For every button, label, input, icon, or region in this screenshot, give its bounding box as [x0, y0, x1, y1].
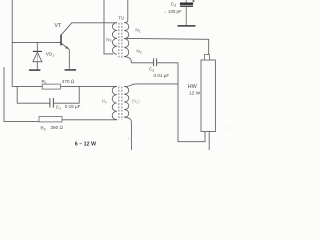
svg-text:0.01 µF: 0.01 µF	[154, 73, 170, 78]
wire: diode bottom lead	[36, 62, 38, 70]
wire: R1 row to N4 top	[12, 85, 117, 87]
svg-text:0.15 µF: 0.15 µF	[65, 104, 81, 109]
capacitor C1	[50, 98, 54, 108]
chassis bar below VD1	[29, 69, 41, 71]
svg-text:390 Ω: 390 Ω	[51, 125, 64, 130]
wire: TU right winding top vertical	[124, 0, 127, 23]
wire: collector to TU top	[61, 23, 117, 35]
diode VD1	[33, 51, 42, 61]
svg-text:HW: HW	[188, 84, 198, 90]
transformer TU right winding N1	[124, 23, 129, 39]
wire: N5 bottom lead	[124, 117, 131, 150]
capacitor C3	[180, 0, 195, 25]
wire: top feed vertical x12	[11, 0, 13, 86]
wire: N2 bottom to C2	[124, 57, 131, 63]
transformer TU core	[119, 23, 122, 58]
transistor VT emitter arrow	[65, 46, 68, 49]
speckle	[165, 12, 167, 14]
svg-text:100 pF: 100 pF	[168, 9, 182, 14]
svg-text:12 W: 12 W	[189, 90, 201, 96]
wire: tube right pin	[208, 132, 210, 150]
transformer TU left winding N3	[112, 23, 117, 55]
wire: N5 top to tube bottom node	[124, 84, 178, 87]
svg-text:TU: TU	[118, 16, 124, 21]
transistor VT base bar	[60, 35, 62, 46]
transformer T2 right winding N5	[124, 87, 129, 118]
resistor R2	[39, 117, 62, 122]
transformer TU right winding N2	[124, 39, 129, 57]
svg-text:470 Ω: 470 Ω	[62, 79, 75, 84]
wire: base row	[12, 41, 60, 43]
wire: C2 row right down to tube bottom	[157, 63, 205, 142]
transformer T2 left winding N4	[112, 86, 117, 119]
transformer T2 core	[119, 87, 122, 120]
wire: C1 parallel loop	[17, 86, 79, 103]
svg-text:VT: VT	[54, 23, 62, 29]
chassis bar below C3	[178, 25, 196, 27]
wire: emitter lead	[61, 43, 69, 69]
wire: TU tap to tube top	[125, 38, 209, 54]
chassis bar below emitter	[65, 69, 77, 71]
lamp tube HW	[201, 60, 215, 132]
wire: TU left winding return x104	[104, 0, 113, 54]
lamp stem	[204, 55, 209, 60]
capacitor C2	[154, 58, 157, 66]
wire: diode top lead	[36, 42, 38, 50]
wire: R2 row to N4 bottom	[62, 119, 117, 121]
resistor R1	[42, 84, 60, 89]
wire: C2 row left	[131, 62, 153, 64]
svg-text:6 – 12 W: 6 – 12 W	[75, 142, 96, 148]
wire: left rail to R2	[4, 67, 39, 121]
